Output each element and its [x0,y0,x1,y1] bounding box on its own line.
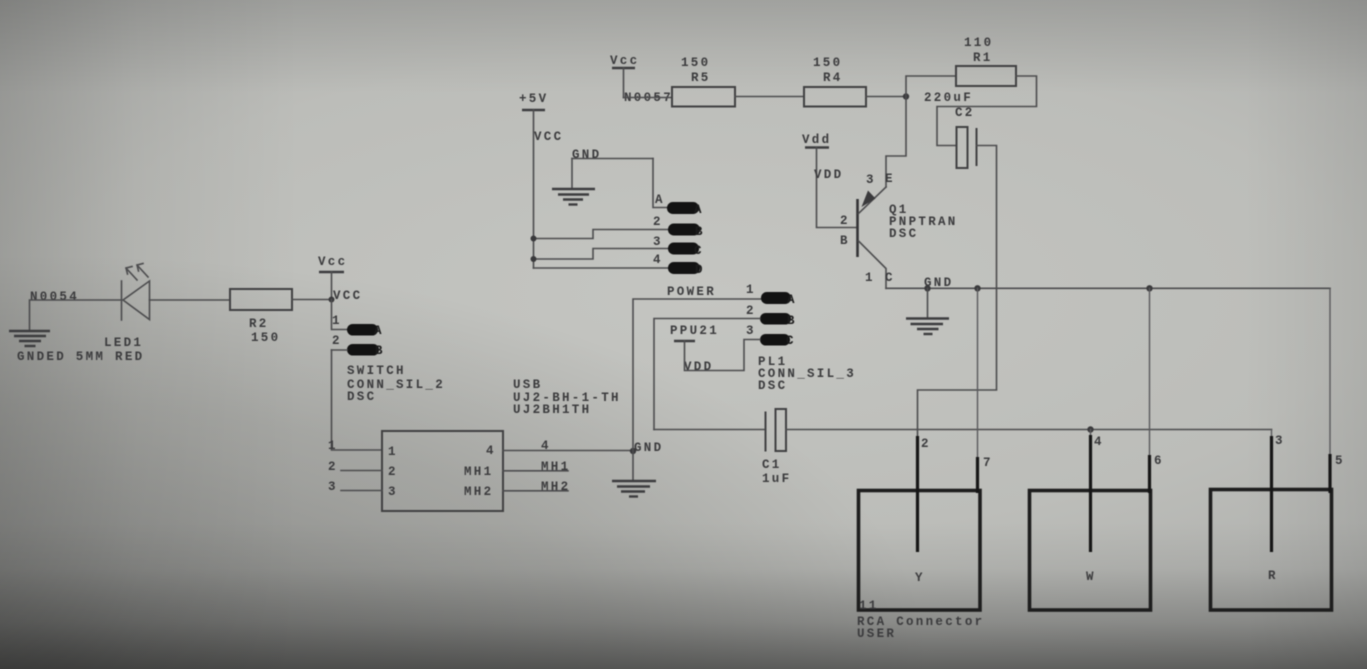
svg-text:D: D [695,263,705,277]
label RCA Connector USER [857,615,984,641]
svg-text:R1: R1 [973,51,993,65]
svg-text:MH2: MH2 [541,480,570,494]
svg-text:110: 110 [964,36,993,50]
connector POWER pin D [534,253,705,277]
wire [866,96,906,98]
wire [292,299,332,301]
ground [906,288,949,334]
svg-text:SWITCH: SWITCH [347,364,406,378]
svg-text:MH2: MH2 [464,485,493,499]
svg-text:1: 1 [328,439,338,453]
wire [150,299,231,301]
svg-text:PPU21: PPU21 [670,324,719,338]
svg-text:N0054: N0054 [30,290,79,304]
svg-text:Vcc: Vcc [318,255,347,269]
svg-text:4: 4 [653,253,663,267]
wire [1271,430,1273,437]
connector SWITCH pin 1 pad A [332,300,384,339]
junction [903,93,909,99]
svg-text:3: 3 [1275,434,1285,448]
svg-text:E: E [885,172,895,186]
svg-text:POWER: POWER [667,285,716,299]
svg-text:11: 11 [859,599,879,613]
wire [332,350,383,450]
svg-text:Vcc: Vcc [610,54,639,68]
svg-text:4: 4 [1094,435,1104,449]
svg-text:4: 4 [486,444,496,458]
pin 3 [328,480,382,494]
wire [653,159,667,208]
svg-text:3: 3 [653,235,663,249]
svg-text:B: B [787,314,797,328]
wire [1090,430,1092,437]
svg-text:2: 2 [328,460,338,474]
transistor Q1 [840,172,958,288]
svg-text:Vdd: Vdd [802,133,831,147]
power Vcc [318,255,362,303]
pin 2 [328,460,382,474]
svg-text:C: C [694,244,704,258]
svg-text:3: 3 [866,173,876,187]
svg-text:VCC: VCC [333,289,362,303]
label USB UJ2-BH-1-TH UJ2BH1TH [513,378,621,417]
svg-text:USER: USER [857,627,896,641]
svg-text:2: 2 [388,465,398,479]
svg-text:GND: GND [572,148,601,162]
svg-text:2: 2 [840,214,850,228]
wire [1149,288,1151,455]
svg-text:220uF: 220uF [924,91,973,105]
junction [329,297,335,303]
svg-text:A: A [694,203,704,217]
wire GND rail [886,285,1330,291]
resistor R5 [672,56,735,107]
svg-text:C: C [885,271,895,285]
wire [633,299,761,451]
svg-text:VCC: VCC [534,130,563,144]
power Vcc top [610,54,639,98]
svg-text:C: C [786,334,796,348]
resistor R4 [804,56,866,107]
wire [937,76,1037,146]
svg-text:A: A [655,193,665,207]
label POWER [667,285,716,299]
label SWITCH CONN_SIL_2 DSC [347,364,445,404]
connector USB box [382,431,503,511]
ground [9,331,50,346]
wire [624,97,673,99]
wire [735,96,804,98]
svg-text:+5V: +5V [519,92,548,106]
svg-text:B: B [840,234,850,248]
svg-text:VDD: VDD [684,360,713,374]
svg-text:A: A [787,293,797,307]
connector POWER pin B [531,215,705,242]
svg-text:Y: Y [915,571,925,585]
node GND [630,441,664,455]
wire [30,300,122,330]
svg-text:R5: R5 [691,71,711,85]
svg-text:C2: C2 [955,106,975,120]
svg-text:R2: R2 [249,317,269,331]
junction [1087,426,1093,432]
svg-text:2: 2 [746,304,756,318]
svg-text:C1: C1 [762,458,782,472]
svg-text:VDD: VDD [814,168,843,182]
svg-text:2: 2 [653,215,663,229]
wire [654,429,766,431]
connector PL1 pin 2 pad B [654,304,797,430]
ground [552,159,595,205]
resistor R1 [956,36,1016,86]
label LED1 GNDED 5MM RED [17,336,144,364]
LED LED1 [122,264,150,321]
svg-text:2: 2 [332,334,342,348]
pin MH1 stub [503,460,570,474]
node N0054 [30,290,79,304]
svg-text:R4: R4 [823,71,843,85]
svg-text:A: A [374,324,384,338]
resistor R2 [230,289,292,345]
wire [906,76,956,97]
power PPU21 VDD [670,324,760,374]
capacitor C1 [762,409,791,486]
connector SWITCH pin 2 pad B [332,334,385,358]
svg-text:150: 150 [681,56,710,70]
svg-text:GNDED 5MM RED: GNDED 5MM RED [17,350,144,364]
wire emitter feed [886,97,906,188]
svg-text:DSC: DSC [758,379,787,393]
pin 1 [328,439,338,453]
svg-text:MH1: MH1 [464,465,493,479]
svg-text:1: 1 [746,283,756,297]
pin MH2 stub [503,480,570,494]
power Vdd [802,133,858,228]
svg-text:3: 3 [746,324,756,338]
connector RCA R [1211,434,1345,610]
svg-text:B: B [695,225,705,239]
svg-text:6: 6 [1154,454,1164,468]
svg-text:1: 1 [865,271,875,285]
ground [612,451,656,497]
svg-text:1uF: 1uF [762,472,791,486]
connector POWER pin A [667,202,704,217]
svg-text:DSC: DSC [347,390,376,404]
wire [1329,288,1331,454]
wire [786,429,1272,431]
svg-text:MH1: MH1 [541,460,570,474]
node N0057 [624,91,673,105]
svg-text:R: R [1268,569,1278,583]
svg-text:3: 3 [388,485,398,499]
connector PL1 pin 1 pad A [746,283,797,307]
svg-text:1: 1 [332,314,342,328]
svg-text:2: 2 [921,437,931,451]
svg-text:W: W [1086,570,1096,584]
svg-text:DSC: DSC [889,227,918,241]
wire [918,146,997,437]
node GND [924,276,953,290]
capacitor C2 [924,91,977,168]
pin 4 wire [503,439,633,453]
connector RCA Y [859,436,993,613]
svg-text:150: 150 [813,56,842,70]
connector RCA W [1030,435,1164,610]
svg-text:150: 150 [251,331,280,345]
svg-text:B: B [375,344,385,358]
svg-text:USB: USB [513,378,542,392]
svg-text:7: 7 [983,456,993,470]
svg-text:5: 5 [1335,454,1345,468]
svg-text:3: 3 [328,480,338,494]
svg-text:LED1: LED1 [104,336,143,350]
connector PL1 pin 3 pad C [746,324,796,348]
node GND [572,148,653,162]
pin labels inside USB [388,444,496,499]
svg-text:GND: GND [634,441,663,455]
power +5V [519,92,563,268]
connector POWER pin C [531,235,704,262]
wire [977,288,979,457]
svg-text:UJ2BH1TH: UJ2BH1TH [513,403,591,417]
svg-text:1: 1 [388,445,398,459]
label PL1 CONN_SIL_3 DSC [758,355,856,393]
